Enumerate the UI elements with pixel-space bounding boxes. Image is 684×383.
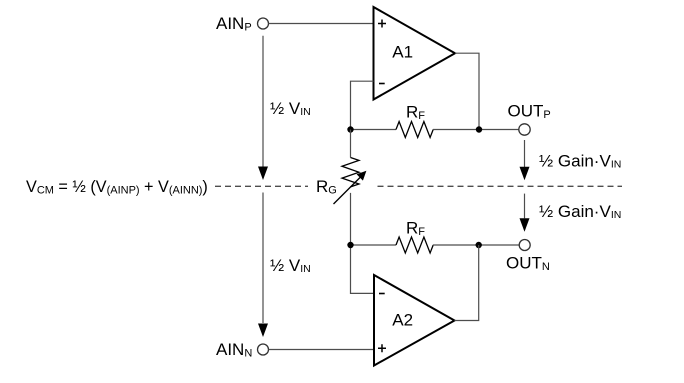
wire bottom feedback left segment <box>351 244 397 246</box>
wire VCM line to AINN vertical <box>262 193 264 324</box>
arrowhead OUTP arrow <box>520 167 530 181</box>
A1 minus pin mark <box>379 83 385 85</box>
resistor RG <box>342 158 359 187</box>
op-amp A1 <box>374 7 456 100</box>
svg-text:½ VIN: ½ VIN <box>270 99 311 118</box>
VCM dashed line right segment <box>378 185 623 187</box>
wire RF top to OUTP <box>433 129 519 131</box>
output terminal OUTP <box>519 124 530 135</box>
wire AINP vertical toward VCM line <box>262 36 264 167</box>
svg-text:RG: RG <box>316 177 337 197</box>
node A2 output junction <box>476 242 482 248</box>
input terminal AINN <box>258 344 269 355</box>
svg-text:A1: A1 <box>392 43 413 62</box>
wire AINP to A1 noninverting input <box>269 23 374 25</box>
node A1 inverting junction <box>347 126 353 132</box>
wire AINN to A2 noninverting input <box>269 349 375 351</box>
wire VCM line down toward OUTN <box>524 194 526 219</box>
svg-text:RF: RF <box>406 102 425 122</box>
wire A2 output up to bottom feedback node <box>455 245 479 321</box>
A2 minus pin mark <box>379 293 385 295</box>
VCM dashed line left segment <box>215 185 308 187</box>
wire RG top lead <box>350 130 352 158</box>
svg-text:½ Gain·VIN: ½ Gain·VIN <box>539 202 621 221</box>
svg-text:½ Gain·VIN: ½ Gain·VIN <box>539 151 621 170</box>
wire OUTP down toward VCM line <box>524 140 526 167</box>
svg-text:OUTP: OUTP <box>508 102 551 122</box>
svg-text:OUTN: OUTN <box>506 254 550 274</box>
resistor RF bottom <box>396 237 433 253</box>
output terminal OUTN <box>519 240 530 251</box>
node A1 output junction <box>476 126 482 132</box>
arrowhead OUTN arrow <box>520 218 530 232</box>
A1 plus pin mark <box>378 20 386 28</box>
svg-text:AINN: AINN <box>216 340 252 360</box>
wire A1 inverting input from feedback node <box>351 81 374 129</box>
RG wiper arrow <box>334 175 363 204</box>
wire A1 output down to feedback node <box>455 53 479 129</box>
wire top feedback left segment <box>351 129 397 131</box>
RG wiper arrowhead <box>357 171 367 181</box>
svg-text:AINP: AINP <box>216 14 252 34</box>
arrowhead at VCM line top <box>258 167 268 181</box>
wire A2 inverting input from bottom feedback node <box>351 245 375 293</box>
arrowhead above AINN <box>258 324 268 338</box>
A2 plus pin mark <box>378 344 386 352</box>
wire RG bottom lead <box>350 193 352 245</box>
node A2 inverting junction <box>347 242 353 248</box>
op-amp A2 <box>374 275 455 366</box>
input terminal AINP <box>258 18 269 29</box>
svg-text:½ VIN: ½ VIN <box>270 256 311 275</box>
svg-text:A2: A2 <box>392 311 413 330</box>
resistor RF top <box>396 122 433 138</box>
svg-text:VCM = ½ (V(AINP) + V(AINN)): VCM = ½ (V(AINP) + V(AINN)) <box>26 178 208 197</box>
wire RF bottom to OUTN <box>433 244 519 246</box>
svg-text:RF: RF <box>406 219 425 239</box>
